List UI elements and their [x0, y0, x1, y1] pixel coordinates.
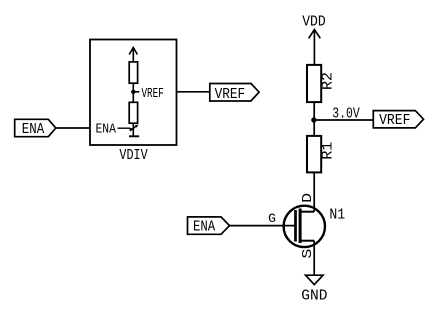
svg-text:VREF: VREF	[379, 112, 410, 129]
wire ENA flag to N1 gate	[230, 225, 296, 227]
svg-text:VDIV: VDIV	[119, 147, 147, 164]
svg-text:R2: R2	[320, 72, 337, 90]
transistor N1 (NMOS)	[284, 206, 325, 247]
wire N1 source to GND	[313, 241, 315, 276]
wire ENA flag to VDIV box	[56, 127, 90, 129]
VDIV internal wire resistor to junction	[132, 83, 134, 102]
svg-text:N1: N1	[329, 207, 345, 224]
resistor R2	[307, 65, 321, 102]
power symbol VDD arrow	[309, 30, 321, 65]
VDIV internal ENA control arrow	[118, 125, 139, 132]
net flag VREF (VDIV output)	[210, 84, 259, 102]
VDIV internal stub junction to VREF label	[133, 91, 139, 93]
resistor R1	[307, 136, 321, 173]
wire junction to VREF flag	[314, 119, 373, 121]
VDIV internal wire resistor to ground	[132, 123, 134, 136]
svg-text:R1: R1	[320, 142, 337, 160]
VDIV internal resistor (top)	[129, 62, 137, 83]
svg-text:3.0V: 3.0V	[332, 106, 359, 123]
VDIV internal resistor (bottom)	[129, 102, 137, 123]
net flag VREF (right)	[373, 111, 423, 128]
VDIV internal junction dot	[131, 90, 135, 94]
svg-text:VREF: VREF	[215, 86, 246, 103]
svg-text:D: D	[300, 193, 316, 203]
wire R1 to N1 drain	[313, 172, 315, 211]
svg-text:VREF: VREF	[142, 86, 164, 102]
VDIV internal ground bar	[129, 135, 139, 137]
wire VDIV VREF pin to VREF flag	[177, 91, 210, 93]
svg-text:ENA: ENA	[22, 121, 44, 138]
ground symbol GND	[306, 275, 324, 284]
VDIV internal top arrow (to supply)	[129, 48, 137, 63]
svg-text:VDD: VDD	[302, 14, 326, 31]
wire R2 to R1	[313, 102, 315, 136]
junction dot node VREF	[311, 117, 316, 122]
net flag ENA (left input)	[15, 119, 56, 136]
svg-text:G: G	[268, 211, 276, 226]
block VDIV (box outline)	[90, 40, 177, 146]
svg-text:ENA: ENA	[193, 219, 215, 236]
svg-text:GND: GND	[301, 288, 327, 305]
net flag ENA (gate input)	[188, 217, 230, 234]
svg-text:ENA: ENA	[96, 122, 117, 138]
